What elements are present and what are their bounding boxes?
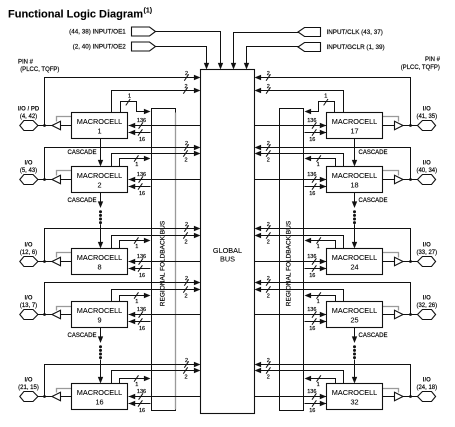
- svg-text:MACROCELL: MACROCELL: [332, 171, 377, 180]
- svg-text:16: 16: [139, 408, 145, 414]
- svg-text:REGIONAL FOLDBACK BUS: REGIONAL FOLDBACK BUS: [286, 220, 293, 306]
- svg-text:16: 16: [95, 398, 103, 407]
- svg-text:I/O: I/O: [24, 296, 32, 302]
- svg-text:(21, 15): (21, 15): [18, 385, 39, 391]
- svg-text:1: 1: [317, 244, 320, 250]
- svg-text:CASCADE: CASCADE: [67, 198, 96, 204]
- svg-text:CASCADE: CASCADE: [359, 198, 388, 204]
- svg-text:PIN #: PIN #: [18, 60, 34, 66]
- svg-text:I/O: I/O: [423, 296, 431, 302]
- svg-text:CASCADE: CASCADE: [67, 333, 96, 339]
- svg-text:2: 2: [267, 141, 270, 147]
- svg-text:(40, 34): (40, 34): [416, 168, 437, 174]
- svg-text:(1): (1): [144, 8, 153, 15]
- svg-text:1: 1: [97, 127, 101, 136]
- svg-text:1: 1: [324, 94, 327, 100]
- svg-text:MACROCELL: MACROCELL: [332, 117, 377, 126]
- svg-text:2: 2: [184, 157, 187, 163]
- svg-text:136: 136: [137, 254, 146, 260]
- svg-text:2: 2: [267, 276, 270, 282]
- svg-text:136: 136: [137, 389, 146, 395]
- svg-text:9: 9: [97, 316, 101, 325]
- svg-text:136: 136: [307, 254, 316, 260]
- svg-text:136: 136: [307, 172, 316, 178]
- svg-text:MACROCELL: MACROCELL: [77, 388, 122, 397]
- svg-text:CASCADE: CASCADE: [67, 150, 96, 156]
- svg-text:I/O / PD: I/O / PD: [18, 107, 40, 113]
- svg-text:(12, 6): (12, 6): [20, 250, 37, 256]
- svg-text:25: 25: [350, 316, 358, 325]
- svg-text:MACROCELL: MACROCELL: [77, 253, 122, 262]
- svg-text:2: 2: [185, 276, 188, 282]
- svg-text:(33, 27): (33, 27): [416, 250, 437, 256]
- svg-text:I/O: I/O: [423, 378, 431, 384]
- svg-text:(13, 7): (13, 7): [20, 303, 37, 309]
- svg-text:8: 8: [97, 263, 101, 272]
- svg-text:MACROCELL: MACROCELL: [77, 171, 122, 180]
- svg-text:16: 16: [139, 326, 145, 332]
- svg-text:I/O: I/O: [24, 243, 32, 249]
- svg-text:17: 17: [350, 127, 358, 136]
- svg-text:1: 1: [135, 244, 138, 250]
- svg-text:136: 136: [307, 389, 316, 395]
- svg-text:2: 2: [184, 374, 187, 380]
- svg-text:32: 32: [350, 398, 358, 407]
- svg-text:136: 136: [307, 118, 316, 124]
- svg-text:I/O: I/O: [423, 107, 431, 113]
- svg-text:I/O: I/O: [423, 161, 431, 167]
- svg-text:MACROCELL: MACROCELL: [332, 253, 377, 262]
- svg-text:I/O: I/O: [24, 161, 32, 167]
- svg-text:1: 1: [317, 382, 320, 388]
- svg-text:2: 2: [184, 239, 187, 245]
- svg-text:Functional Logic Diagram: Functional Logic Diagram: [8, 9, 143, 21]
- svg-text:18: 18: [350, 181, 358, 190]
- svg-text:(5, 43): (5, 43): [20, 168, 37, 174]
- svg-text:1: 1: [128, 94, 131, 100]
- svg-text:16: 16: [139, 191, 145, 197]
- svg-text:1: 1: [135, 162, 138, 168]
- svg-text:16: 16: [309, 191, 315, 197]
- svg-text:2: 2: [185, 358, 188, 364]
- svg-text:(PLCC, TQFP): (PLCC, TQFP): [401, 65, 440, 71]
- svg-text:REGIONAL FOLDBACK BUS: REGIONAL FOLDBACK BUS: [160, 220, 167, 306]
- svg-text:(PLCC, TQFP): (PLCC, TQFP): [20, 67, 59, 73]
- svg-text:1: 1: [317, 162, 320, 168]
- svg-text:16: 16: [309, 326, 315, 332]
- svg-text:(2, 40) INPUT/OE2: (2, 40) INPUT/OE2: [73, 44, 127, 51]
- svg-text:MACROCELL: MACROCELL: [332, 306, 377, 315]
- svg-text:2: 2: [185, 71, 188, 77]
- svg-text:(32, 26): (32, 26): [416, 303, 437, 309]
- svg-text:MACROCELL: MACROCELL: [77, 117, 122, 126]
- svg-text:INPUT/CLK (43, 37): INPUT/CLK (43, 37): [327, 29, 383, 36]
- svg-text:2: 2: [267, 71, 270, 77]
- svg-text:2: 2: [267, 293, 270, 299]
- svg-text:2: 2: [185, 141, 188, 147]
- svg-text:1: 1: [317, 299, 320, 305]
- svg-text:I/O: I/O: [24, 378, 32, 384]
- svg-text:16: 16: [139, 137, 145, 143]
- svg-text:136: 136: [137, 307, 146, 313]
- svg-text:2: 2: [267, 157, 270, 163]
- svg-text:PIN #: PIN #: [425, 57, 441, 63]
- svg-text:(24, 18): (24, 18): [416, 385, 437, 391]
- svg-text:16: 16: [139, 273, 145, 279]
- svg-text:136: 136: [307, 307, 316, 313]
- svg-text:2: 2: [267, 358, 270, 364]
- svg-text:136: 136: [137, 118, 146, 124]
- svg-text:I/O: I/O: [423, 243, 431, 249]
- svg-text:CASCADE: CASCADE: [359, 150, 388, 156]
- svg-text:1: 1: [135, 299, 138, 305]
- svg-text:(4, 42): (4, 42): [20, 114, 37, 120]
- svg-text:2: 2: [185, 222, 188, 228]
- svg-text:2: 2: [267, 374, 270, 380]
- svg-text:136: 136: [137, 172, 146, 178]
- svg-text:2: 2: [184, 84, 187, 90]
- svg-text:16: 16: [309, 273, 315, 279]
- svg-text:2: 2: [184, 293, 187, 299]
- svg-text:BUS: BUS: [220, 254, 235, 263]
- svg-text:CASCADE: CASCADE: [359, 333, 388, 339]
- svg-text:1: 1: [135, 382, 138, 388]
- svg-text:(44, 38) INPUT/OE1: (44, 38) INPUT/OE1: [69, 29, 126, 36]
- svg-text:24: 24: [350, 263, 358, 272]
- svg-text:INPUT/GCLR (1, 39): INPUT/GCLR (1, 39): [327, 44, 385, 51]
- svg-text:2: 2: [267, 222, 270, 228]
- svg-text:16: 16: [309, 408, 315, 414]
- svg-text:MACROCELL: MACROCELL: [332, 388, 377, 397]
- svg-text:(41, 35): (41, 35): [416, 114, 437, 120]
- svg-text:2: 2: [97, 181, 101, 190]
- svg-text:2: 2: [267, 84, 270, 90]
- svg-text:16: 16: [309, 137, 315, 143]
- svg-text:2: 2: [267, 239, 270, 245]
- svg-text:MACROCELL: MACROCELL: [77, 306, 122, 315]
